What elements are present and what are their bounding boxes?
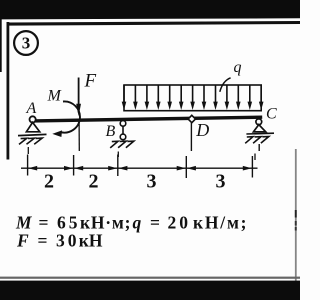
support C hatch 3 (261, 137, 269, 144)
dimension tick A (27, 155, 29, 176)
support B hatch 2 (118, 141, 126, 148)
roller link support B: lower hinge circle (120, 134, 126, 140)
dimension tick B (117, 155, 119, 177)
top scan black bar (0, 0, 300, 19)
svg-text:D: D (195, 120, 209, 140)
force F arrowhead (76, 104, 81, 116)
leader line for q (220, 78, 231, 92)
svg-text:3: 3 (216, 171, 226, 193)
distributed load q: arrows (122, 85, 264, 110)
extension line below C upper (258, 144, 260, 151)
roller link support B: link (122, 126, 124, 134)
dimension tick F (73, 155, 75, 176)
svg-text:3: 3 (22, 34, 31, 53)
bottom page edge gray line (0, 277, 300, 279)
svg-text:2: 2 (89, 171, 99, 193)
support C hatch 1 (245, 137, 253, 144)
extension line below A (27, 147, 29, 154)
svg-text:F: F (84, 70, 97, 91)
pin support A: triangle (26, 122, 39, 131)
support B hatch 3 (126, 141, 134, 148)
top frame border (7, 23, 300, 25)
svg-text:A: A (26, 100, 37, 117)
pin support A: hatch 3 (34, 138, 42, 144)
svg-text:M=65кН·м;q=20кН/м;: M=65кН·м;q=20кН/м; (15, 212, 248, 232)
dimension arrows (28, 166, 252, 171)
roller link support B: upper hinge circle (120, 121, 126, 127)
support B hatch 1 (110, 141, 118, 148)
pin support A: hinge circle (29, 116, 35, 122)
svg-text:C: C (266, 106, 277, 123)
svg-text:q: q (234, 59, 242, 76)
circled figure number 3 (14, 31, 38, 55)
distributed load q: outline box (124, 85, 261, 111)
moment M arc (60, 101, 80, 132)
svg-text:M: M (47, 88, 63, 105)
extension line below F (78, 122, 80, 151)
extension line below D (190, 123, 192, 151)
right page edge line (295, 149, 297, 281)
extension line below C lower (254, 154, 256, 161)
extension line below B (117, 152, 119, 158)
bottom scan black bar (0, 281, 300, 300)
left frame border (7, 22, 10, 160)
hinge D (188, 115, 195, 122)
pin support A: hatch 1 (19, 138, 27, 144)
moment M arrowhead (52, 130, 62, 137)
dimension line (21, 167, 258, 169)
left edge scan artifact (0, 19, 2, 72)
right edge dark marks (295, 210, 297, 218)
dimension tick D (185, 156, 187, 178)
pin support C: triangle (253, 125, 265, 132)
pin support C: hinge circle (256, 119, 262, 125)
svg-text:F=30кН: F=30кН (16, 231, 103, 251)
pin support A: ground line (18, 134, 47, 135)
beam AC (33, 117, 262, 121)
support C hatch 2 (253, 137, 261, 144)
force F line (78, 78, 80, 113)
pin support A: hatch 2 (27, 138, 35, 144)
svg-text:3: 3 (147, 171, 157, 193)
pin support C: ground line (246, 132, 274, 135)
svg-text:2: 2 (44, 171, 54, 193)
svg-text:B: B (106, 123, 116, 140)
dimension tick C (251, 156, 253, 178)
